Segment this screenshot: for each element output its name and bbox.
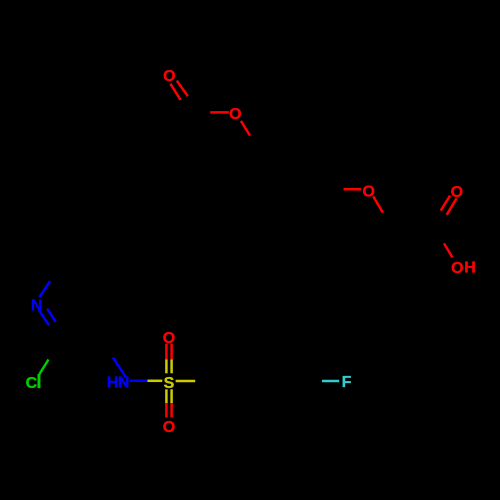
svg-text:l: l [36,371,41,393]
svg-text:O: O [362,184,374,201]
svg-text:F: F [342,374,352,391]
svg-text:O: O [163,419,175,436]
svg-text:O: O [451,260,463,277]
svg-text:O: O [163,330,175,347]
svg-text:O: O [451,184,463,201]
svg-text:N: N [118,375,130,392]
svg-text:O: O [229,106,241,123]
svg-text:H: H [107,375,119,392]
svg-text:H: H [464,260,476,277]
svg-text:S: S [164,375,175,392]
svg-text:O: O [163,68,175,85]
svg-text:N: N [31,298,43,315]
